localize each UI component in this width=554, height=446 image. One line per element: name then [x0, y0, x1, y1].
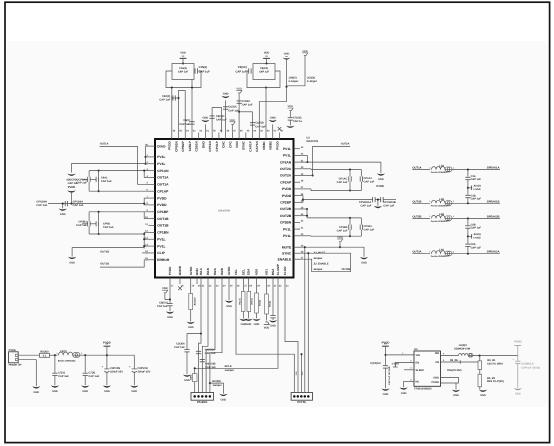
wire SYNC net to PCTRL 5 [307, 253, 309, 392]
svg-text:R2(X)D: R2(X)D [212, 380, 221, 383]
jumper R vertical pin 19 [190, 284, 192, 294]
svg-text:CAP 1uF: CAP 1uF [179, 123, 190, 126]
svg-text:C26 1% 1M02: C26 1% 1M02 [487, 362, 503, 365]
svg-text:PVDD: PVDD [168, 266, 172, 275]
capacitor CP1B1 rail [87, 221, 89, 226]
wire bottom rail to pin 6 [89, 190, 148, 192]
wire PVDD row left [48, 203, 144, 205]
U1 top pin 55 [178, 133, 180, 140]
U1 top pin 44 [252, 133, 254, 140]
svg-text:C(XX)UX: C(XX)UX [370, 362, 381, 365]
svg-text:OUT2B: OUT2B [342, 268, 351, 271]
wire filter row OUT2B [412, 217, 430, 219]
svg-text:CAP 1uF: CAP 1uF [76, 224, 87, 227]
svg-text:GND: GND [284, 53, 290, 56]
wire filter row OUT1A [412, 169, 430, 171]
svg-text:C8(X)C: C8(X)C [216, 115, 225, 118]
svg-text:GND: GND [254, 323, 260, 326]
svg-text:Ferrite 2X2400JTY: Ferrite 2X2400JTY [431, 171, 451, 174]
junction dots filter rows [467, 169, 469, 171]
svg-text:PV1L: PV1L [157, 155, 165, 159]
svg-text:MAX9709: MAX9709 [307, 140, 319, 143]
svg-text:GNDB: GNDB [178, 265, 182, 275]
svg-text:CAP 1uF: CAP 1uF [383, 205, 394, 208]
right lower rails [349, 218, 351, 225]
ground under C8XXX [166, 311, 174, 313]
wire C16 group to pin [171, 88, 173, 133]
svg-text:R2(X): R2(X) [250, 298, 253, 304]
svg-text:GND: GND [270, 325, 276, 328]
svg-text:CLAMP: CLAMP [276, 264, 280, 275]
wire R5 to L5 [50, 354, 58, 356]
svg-text:GND: GND [453, 394, 459, 397]
svg-text:VCL: VCL [234, 269, 238, 275]
wire PVDD row to pins 7-8 [143, 198, 145, 205]
svg-text:Ferrite 2X2400JTY: Ferrite 2X2400JTY [431, 220, 451, 223]
wire PVDD feed upper-left [72, 164, 146, 173]
wire jumper net to pin 43 [259, 102, 286, 133]
svg-text:GND: GND [515, 393, 521, 396]
svg-text:OUT2A: OUT2A [412, 251, 421, 254]
U1 left pin 4 OUT1A [149, 176, 156, 178]
resistor R4X pullup pin 30 to VDD [266, 284, 268, 294]
U1 top pin 40 [278, 133, 280, 140]
U1 right pin 33 OUT2B [294, 215, 301, 217]
svg-text:VDD: VDD [236, 88, 242, 91]
svg-text:CAP 1uF: CAP 1uF [101, 180, 112, 183]
svg-text:ENABLE: ENABLE [278, 257, 292, 261]
svg-text:CAP 1uF: CAP 1uF [199, 70, 211, 73]
U1 left pin 6 CP1AP [149, 190, 156, 192]
svg-text:GND: GND [52, 390, 58, 393]
svg-text:2-Jmper: 2-Jmper [307, 80, 317, 83]
svg-text:OUT1A: OUT1A [157, 183, 169, 187]
svg-text:PGND: PGND [432, 381, 440, 384]
svg-text:CAP1N: CAP1N [255, 141, 259, 152]
svg-text:PV1L: PV1L [283, 227, 291, 231]
svg-text:CAP 1uF: CAP 1uF [471, 247, 482, 250]
svg-text:CP1BP: CP1BP [157, 210, 169, 214]
capacitor C1D above pin 44 [252, 112, 254, 133]
wire GND row lower-left [72, 247, 144, 249]
svg-text:NBB2: NBB2 [269, 141, 273, 150]
ground lower-left [68, 257, 76, 259]
capacitor C16 boxed [172, 64, 194, 80]
wire loop of C8XX group [247, 71, 280, 88]
svg-text:JU6(X): JU6(X) [288, 77, 296, 80]
svg-text:GND: GND [433, 377, 439, 380]
U1 bottom pin 21 [200, 278, 202, 285]
svg-text:R3(X): R3(X) [258, 300, 261, 306]
svg-text:PVDD: PVDD [514, 341, 522, 344]
svg-text:GND: GND [270, 117, 276, 120]
U1 top pin 50 [211, 133, 213, 140]
wire branch with capacitor CXB to ground [187, 334, 201, 349]
svg-text:JU_MUTE: JU_MUTE [313, 251, 325, 254]
svg-text:GND: GND [361, 262, 367, 265]
svg-text:JU(X)10: JU(X)10 [194, 297, 197, 306]
svg-text:OUT1A: OUT1A [100, 143, 109, 146]
svg-text:VIN: VIN [416, 354, 420, 357]
svg-text:CPX1N: CPX1N [208, 141, 212, 152]
svg-text:SW: SW [435, 352, 440, 355]
svg-text:1-GND: 1-GND [473, 188, 481, 191]
svg-text:R4(X): R4(X) [268, 301, 271, 307]
U1 left pin 16 ERROR [149, 259, 156, 261]
svg-text:JU5(X): JU5(X) [307, 77, 315, 80]
wire L2A to speaker [452, 253, 500, 255]
svg-text:SCL: SCL [242, 269, 246, 275]
capacitor CP1AC [348, 176, 350, 181]
svg-text:VDD: VDD [302, 50, 308, 53]
U1 right pin 36 PVDD [294, 195, 301, 197]
svg-text:SPEAK2B: SPEAK2B [487, 215, 500, 218]
boost IC U2 body [414, 351, 441, 386]
wire junction to C1D branch [239, 111, 252, 113]
U1 right pin 37 PVDD [294, 188, 301, 190]
wire OUT1B to pin 16 [100, 260, 149, 267]
header PAUDIO [191, 393, 214, 401]
U1 top pin 51 [204, 133, 206, 140]
inductor L2A [432, 251, 446, 254]
svg-text:CAP 1uF: CAP 1uF [255, 125, 266, 128]
svg-text:SDM428-10M: SDM428-10M [454, 348, 470, 351]
capacitor C6 [189, 121, 194, 123]
U1 left pin 1 PV1L [149, 156, 156, 158]
svg-text:CAP 1uF: CAP 1uF [178, 71, 189, 74]
capacitor CP1B1 [359, 225, 361, 230]
wire right loop top [310, 168, 312, 171]
svg-text:C8(XX): C8(XX) [260, 67, 268, 70]
svg-text:CP2BP: CP2BP [280, 201, 292, 205]
svg-text:PV1L: PV1L [157, 162, 165, 166]
svg-text:R5(X)0: R5(X)0 [40, 350, 49, 353]
svg-text:CAP 1uF: CAP 1uF [235, 70, 247, 73]
svg-text:Ferrite 2X2400JTY: Ferrite 2X2400JTY [431, 205, 451, 208]
inductor L1B [432, 200, 446, 203]
svg-text:CP2AP: CP2AP [280, 180, 292, 184]
svg-text:CAP 1uF: CAP 1uF [361, 205, 372, 208]
U1 right pin 32 CP2BN [294, 221, 301, 223]
U1 left pin 46 DIAG [149, 145, 156, 147]
wire ENABLE to OUT2B [300, 259, 351, 272]
svg-text:AVDD: AVDD [189, 266, 193, 275]
svg-text:L1B: L1B [439, 198, 444, 201]
U1 right pin 30 PV1L [294, 235, 301, 237]
svg-text:FB: FB [436, 361, 440, 364]
U1 bottom pin 25 [228, 278, 230, 285]
U1 top pin 56 [171, 133, 173, 140]
U1 bottom pin 19 [190, 278, 192, 285]
U1 left pin 11 OUT1B [149, 225, 156, 227]
svg-text:CAP 1u: CAP 1u [293, 120, 303, 123]
jumper JU2 1-GND [467, 228, 469, 243]
wire right PVDD row [302, 196, 304, 203]
svg-text:L5(X): L5(X) [60, 350, 67, 353]
wire PVDD to U2 VIN [386, 354, 415, 356]
svg-text:CAP 1uF 16V X5R: CAP 1uF 16V X5R [388, 366, 391, 385]
svg-text:CAP 1uF: CAP 1uF [471, 198, 482, 201]
wire L6 to output [473, 355, 518, 357]
svg-text:2-Jmper: 2-Jmper [288, 80, 298, 83]
wire L1A to speaker [452, 169, 500, 171]
U1 left pin 8 PVDD [149, 204, 156, 206]
power VDD above mute wire [337, 239, 343, 242]
svg-text:Jumper: Jumper [225, 369, 234, 372]
capacitor C4XXA [196, 350, 201, 352]
svg-text:R5_R6: R5_R6 [450, 359, 458, 362]
svg-text:PAUDIO: PAUDIO [197, 401, 207, 404]
svg-text:PV1L: PV1L [157, 244, 165, 248]
svg-text:GND: GND [221, 398, 227, 401]
wire pin 17 down [169, 284, 171, 303]
svg-text:CAP 1uF: CAP 1uF [471, 178, 482, 181]
svg-text:220uF 25V: 220uF 25V [110, 370, 123, 373]
capacitor C50 [171, 97, 179, 99]
ground PGND [452, 390, 460, 392]
capacitor C9XX [248, 68, 250, 73]
jumper JU box to PAUDIO 1 [192, 374, 197, 382]
wire bus pins 12-14 [143, 232, 145, 248]
svg-text:CAP 1uF: CAP 1uF [471, 227, 482, 230]
svg-text:CAP 1uF: CAP 1uF [73, 204, 84, 207]
U1 top pin 46 [238, 133, 240, 140]
svg-text:DNL(PL302): DNL(PL302) [447, 369, 461, 372]
U1 left pin 3 CP1AN [149, 170, 156, 172]
U1 bottom pin 30 [266, 278, 268, 285]
wire NC pin to ground [404, 380, 414, 382]
U1 bottom pin 33 [284, 278, 286, 285]
svg-text:AD0: AD0 [255, 269, 259, 275]
svg-text:GND: GND [378, 178, 384, 181]
ground on PVDD row [62, 204, 64, 209]
ground under jumper pin 19 [187, 322, 195, 324]
U1 right pin 39 OUT2A [294, 175, 301, 177]
wire pin 15 stub [142, 252, 149, 254]
wire right lower loop top [306, 209, 308, 218]
wire lower-left bottom rail [89, 233, 144, 235]
svg-text:PVDD: PVDD [282, 194, 292, 198]
capacitor C8C [210, 115, 215, 117]
svg-text:220uF 25V: 220uF 25V [138, 370, 151, 373]
svg-text:CAP 1uF: CAP 1uF [159, 99, 170, 102]
svg-text:VDD: VDD [230, 119, 236, 122]
svg-text:CAP 1uF: CAP 1uF [76, 182, 87, 185]
svg-text:C7S0X: C7S0X [242, 100, 250, 103]
U1 bottom pin 28 [248, 278, 250, 285]
wire pin 32 BCLK route [195, 284, 278, 368]
capacitor C7A [54, 355, 56, 373]
svg-text:SPEAK1B: SPEAK1B [487, 200, 500, 203]
op-amp U1 body MAX9709 [155, 139, 294, 278]
svg-text:CNC: CNC [222, 141, 226, 148]
wire upper-left rails [88, 171, 90, 177]
resistor R5X 0.1 [40, 353, 50, 357]
capacitor C1A [467, 170, 469, 177]
svg-text:NBB1: NBB1 [262, 141, 266, 150]
svg-text:CAP 1uF 25V(X): CAP 1uF 25V(X) [521, 366, 540, 369]
svg-text:C50(X): C50(X) [162, 95, 170, 98]
svg-text:L1A: L1A [439, 164, 444, 167]
no-connect X on pin 40 [278, 127, 282, 131]
svg-text:CPC: CPC [228, 141, 232, 148]
wire bus pins 1-2 [146, 145, 149, 147]
wire C8XX group to pin 42 [265, 88, 267, 133]
svg-text:CAP 1uF: CAP 1uF [364, 181, 375, 184]
capacitor CP1A1 [359, 176, 361, 181]
svg-text:VDD: VDD [264, 327, 270, 330]
wire pin 22 route to PAUDIO 3 [202, 284, 208, 393]
svg-text:CAP 1uF: CAP 1uF [228, 109, 239, 112]
svg-text:Beads DX603244: Beads DX603244 [58, 360, 76, 363]
U1 left pin 2 PV1L [149, 163, 156, 165]
U1 right pin 40 OUT2A [294, 168, 301, 170]
svg-text:AD1: AD1 [265, 269, 269, 275]
wire filter row OUT1B [412, 202, 430, 204]
svg-text:VDD: VDD [264, 52, 270, 55]
svg-text:CPB2N: CPB2N [174, 141, 178, 152]
svg-text:GND: GND [167, 316, 173, 319]
svg-text:DIAG: DIAG [157, 144, 166, 148]
capacitor C7B [84, 355, 86, 373]
svg-text:Jumper: Jumper [313, 268, 322, 271]
U1 left pin 12 CP1BN [149, 231, 156, 233]
U1 right pin 43 PV1L [294, 148, 301, 150]
U1 top pin 48 [225, 133, 227, 140]
svg-text:PCTRL: PCTRL [297, 401, 306, 404]
svg-text:GND: GND [401, 392, 407, 395]
svg-text:PVDD: PVDD [282, 187, 292, 191]
wire pin 23 route to PAUDIO 4 [206, 284, 215, 393]
power port PVDD upper-left [67, 174, 76, 176]
svg-text:GND: GND [246, 323, 252, 326]
jumper JU1 1-GND [467, 180, 469, 195]
ground input cap [381, 389, 389, 391]
svg-text:CPX1P: CPX1P [215, 141, 219, 151]
ground right PVDD row [377, 200, 379, 206]
svg-text:IN1A: IN1A [199, 267, 203, 275]
U1 bottom pin 29 [256, 278, 258, 285]
svg-text:CAP 1uF: CAP 1uF [88, 375, 99, 378]
ground R2XD [219, 394, 227, 396]
U1 bottom pin 23 [214, 278, 216, 285]
svg-text:GND: GND [480, 394, 486, 397]
capacitor CPVDD1A CPVDD1B [372, 197, 374, 202]
wire MUTE net to PCTRL 4 [304, 247, 306, 392]
capacitor CP1B0 [348, 225, 350, 230]
wire L1B to speaker [452, 202, 500, 204]
svg-text:PVDD: PVDD [275, 141, 279, 150]
wire L2B to speaker [452, 217, 500, 219]
svg-text:PVDD: PVDD [376, 185, 384, 188]
capacitor C2A [465, 243, 470, 245]
svg-text:OUT2B: OUT2B [280, 207, 292, 211]
capacitor C8XX boxed [253, 64, 275, 80]
svg-text:MUTE: MUTE [282, 245, 292, 249]
svg-text:IN1B: IN1B [206, 267, 210, 275]
svg-text:SYNC: SYNC [242, 141, 246, 150]
svg-text:IN2A: IN2A [213, 267, 217, 275]
svg-text:OUT1B: OUT1B [412, 200, 421, 203]
U1 right pin 29 MUTE [294, 246, 301, 248]
ground mute [360, 257, 368, 259]
capacitor CP1B1 side [82, 223, 88, 225]
wire pin 24 route to PAUDIO 5 [210, 284, 222, 393]
svg-text:GND: GND [131, 390, 137, 393]
wire MUTE to ground [300, 247, 364, 257]
inductor L2B [432, 215, 446, 218]
wire top rail to pin 3 [89, 170, 148, 172]
U1 bottom pin 24 [221, 278, 223, 285]
svg-text:OUT2B: OUT2B [412, 215, 421, 218]
U1 left pin 10 OUT1B [149, 218, 156, 220]
wire OUT2A to pin 39 [313, 146, 351, 175]
svg-text:OUT1B: OUT1B [100, 250, 109, 253]
svg-text:PVDD: PVDD [68, 186, 76, 189]
svg-text:VDD: VDD [162, 287, 168, 290]
svg-text:OUT2B: OUT2B [280, 214, 292, 218]
U1 right pin 38 CP2AP [294, 181, 301, 183]
svg-text:VDD: VDD [295, 371, 298, 376]
capacitor CP1A1 [82, 178, 88, 180]
svg-text:OUT1B: OUT1B [157, 217, 169, 221]
wire connector pin 1 [18, 354, 39, 356]
capacitor C9A1 [95, 177, 97, 182]
svg-text:R1(X): R1(X) [239, 298, 242, 304]
svg-text:IN2B: IN2B [220, 267, 224, 275]
svg-text:SLEEP: SLEEP [416, 369, 425, 372]
resistor R5_R1 [478, 361, 482, 370]
jumper JU5 with power VDD [302, 53, 308, 56]
U1 right pin 31 PV1L [294, 228, 301, 230]
svg-text:VDD: VDD [235, 141, 239, 148]
capacitor C2B [467, 218, 469, 225]
resistor R3X pull pin 29 [256, 284, 258, 293]
svg-text:BCLK: BCLK [225, 365, 232, 368]
U1 bottom pin 26 [235, 278, 237, 285]
svg-text:GND: GND [201, 141, 205, 149]
svg-text:CAP1P: CAP1P [248, 141, 252, 151]
wire bus right pins 42-41 [306, 155, 308, 162]
svg-text:C16(X): C16(X) [179, 67, 187, 70]
ground on CP2AN net [380, 162, 382, 173]
U1 left pin 14 PV1L [149, 245, 156, 247]
capacitor C4XXB [200, 358, 205, 360]
svg-text:CP2BN: CP2BN [280, 221, 292, 225]
svg-text:NC: NC [416, 381, 420, 384]
capacitor C9PV electrolytic 2 [133, 355, 135, 368]
svg-text:CAP 1uF: CAP 1uF [157, 305, 168, 308]
capacitor C1B [465, 194, 470, 196]
svg-text:C15(X): C15(X) [199, 66, 208, 69]
svg-text:CAP 1uF: CAP 1uF [337, 181, 348, 184]
svg-text:GND: GND [203, 117, 209, 120]
wire pin 21 route to PAUDIO 2 [199, 284, 202, 393]
U1 top pin 43 [258, 133, 260, 140]
capacitor C15 [194, 68, 196, 73]
U1 right pin 41 CP2AN [294, 161, 301, 163]
svg-text:GND: GND [226, 305, 232, 308]
svg-text:C2B1P: C2B1P [188, 141, 192, 151]
svg-text:Header 2H: Header 2H [9, 364, 22, 367]
U1 bottom pin 32 [277, 278, 279, 285]
U1 right pin 35 CP2BP [294, 201, 301, 203]
svg-text:OUT1A: OUT1A [412, 167, 421, 170]
svg-text:OUT2A: OUT2A [280, 167, 292, 171]
header PCTRL [291, 393, 312, 401]
wire filter row OUT2A [412, 253, 430, 255]
svg-text:PVDD: PVDD [157, 203, 167, 207]
